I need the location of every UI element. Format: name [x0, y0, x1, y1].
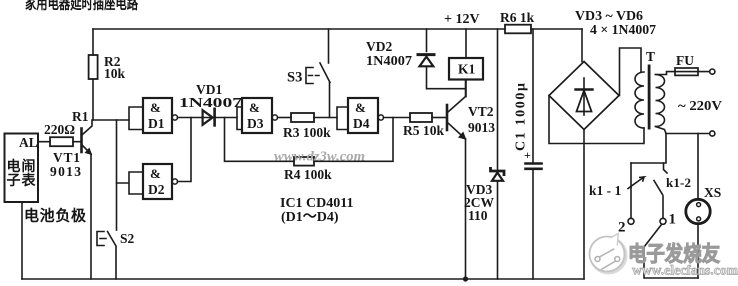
- svg-text:D1: D1: [148, 116, 165, 131]
- wire D3 output to R3: [278, 117, 292, 119]
- svg-text:FU: FU: [676, 53, 694, 68]
- svg-text:电池负极: 电池负极: [24, 207, 87, 225]
- wire D1 output to D3 input: [178, 117, 238, 119]
- nand gate D4: [337, 107, 348, 130]
- wire bottom rail: [22, 278, 584, 280]
- wire bridge bottom to rail: [583, 130, 585, 280]
- relay coil K1: [465, 29, 467, 97]
- wire input rail to D2/S2: [116, 120, 118, 230]
- svg-text:IC1 CD4011: IC1 CD4011: [280, 196, 354, 211]
- resistor R4 100k: [294, 157, 314, 166]
- diode VD1 1N4007: [203, 110, 213, 125]
- watermark elecfans logo: [590, 234, 627, 274]
- resistor R1 220Ω: [38, 141, 81, 143]
- capacitor C1 1000u: [532, 29, 534, 279]
- svg-text:&: &: [150, 100, 161, 115]
- svg-text:110: 110: [468, 208, 488, 223]
- svg-text:2: 2: [618, 220, 626, 236]
- transformer T primary winding: [656, 75, 665, 127]
- terminal bottom 220V: [710, 131, 715, 136]
- wire collector node to gate inputs: [93, 119, 129, 121]
- svg-text:1N4007: 1N4007: [366, 53, 412, 68]
- svg-text:C1 1000μ: C1 1000μ: [514, 83, 529, 151]
- box AL electronic alarm clock: [5, 134, 39, 203]
- svg-text:XS: XS: [704, 185, 721, 200]
- wire AL box to bottom rail: [21, 202, 23, 279]
- svg-text:www.dz3w.com: www.dz3w.com: [274, 150, 365, 165]
- nand gate D1: [129, 107, 143, 130]
- resistor R5 10k: [410, 113, 432, 122]
- svg-text:R5 10k: R5 10k: [403, 123, 444, 138]
- svg-text:D4: D4: [353, 116, 370, 131]
- wire D4 output to R5: [384, 117, 411, 119]
- relay contact k1-2: [664, 163, 668, 173]
- svg-text:(D1～D4): (D1～D4): [281, 210, 339, 225]
- wire feedback via R4: [225, 118, 394, 162]
- svg-text:+ 12V: + 12V: [444, 12, 480, 27]
- svg-text:220Ω: 220Ω: [44, 122, 75, 137]
- terminal top 220V: [710, 69, 715, 74]
- resistor R3 100k: [291, 113, 314, 122]
- svg-text:~ 220V: ~ 220V: [678, 99, 722, 114]
- svg-text:k1-2: k1-2: [666, 175, 691, 190]
- resistor R6 1k: [505, 25, 531, 34]
- svg-text:S3: S3: [287, 70, 302, 86]
- svg-text:D3: D3: [247, 116, 264, 131]
- junction dot VT2 emitter / ground rail: [463, 276, 468, 281]
- svg-text:T: T: [646, 49, 655, 64]
- svg-text:10k: 10k: [104, 66, 126, 81]
- svg-text:K1: K1: [458, 62, 476, 77]
- svg-text:www.elecfans.com: www.elecfans.com: [632, 263, 738, 278]
- svg-text:1N4007: 1N4007: [179, 95, 242, 110]
- wire k1-2 contact 1 to XS bottom: [644, 225, 698, 279]
- wire primary bottom to terminal: [666, 133, 710, 135]
- svg-text:&: &: [355, 100, 366, 115]
- wire bridge AC2 to secondary bottom: [549, 96, 644, 144]
- wire R3 to D4 input with S3 junction: [314, 117, 337, 119]
- svg-text:S2: S2: [120, 231, 135, 246]
- svg-text:电闹: 电闹: [7, 158, 36, 175]
- transformer T secondary winding: [635, 72, 644, 128]
- nand gate D3: [237, 107, 242, 130]
- svg-text:D2: D2: [148, 182, 165, 197]
- wire top rail +12V: [93, 28, 582, 30]
- svg-text:AL: AL: [19, 135, 38, 150]
- wire XS top: [697, 134, 699, 279]
- svg-text:VT2: VT2: [468, 104, 494, 119]
- svg-text:R3 100k: R3 100k: [283, 125, 331, 140]
- diode VD2 1N4007 flyback: [427, 29, 466, 89]
- fuse FU: [675, 68, 698, 75]
- zener diode VD3 2CW110: [497, 29, 499, 279]
- svg-text:VD3 ~ VD6: VD3 ~ VD6: [575, 9, 643, 24]
- svg-text:&: &: [249, 100, 260, 115]
- svg-text:子表: 子表: [7, 172, 37, 189]
- wire bridge AC1 to secondary top: [620, 48, 642, 96]
- svg-text:R4 100k: R4 100k: [284, 167, 332, 182]
- transistor VT2 9013: [432, 117, 446, 119]
- wire to relay contacts: [631, 134, 666, 164]
- svg-text:1: 1: [669, 212, 677, 228]
- wire D2 output to D1 output node: [178, 118, 192, 182]
- socket XS: [686, 199, 710, 223]
- svg-text:VD2: VD2: [366, 39, 392, 54]
- transformer core: [648, 65, 651, 130]
- switch S2: [97, 232, 106, 246]
- svg-text:&: &: [150, 166, 161, 181]
- switch S3: [328, 29, 330, 63]
- transistor VT1 9013: [83, 120, 93, 135]
- svg-text:9013: 9013: [468, 120, 495, 135]
- svg-text:R6 1k: R6 1k: [500, 10, 535, 25]
- svg-text:9013: 9013: [50, 164, 81, 179]
- resistor R2: [92, 29, 94, 120]
- svg-text:VT1: VT1: [53, 150, 80, 165]
- svg-text:k1 - 1: k1 - 1: [589, 183, 622, 198]
- bridge rectifier VD3~VD6: [581, 29, 583, 62]
- relay contact k1-1: [630, 163, 632, 187]
- svg-text:家用电器延时插座电路: 家用电器延时插座电路: [25, 0, 139, 13]
- svg-text:4 × 1N4007: 4 × 1N4007: [590, 23, 656, 38]
- nand gate D2: [117, 172, 144, 194]
